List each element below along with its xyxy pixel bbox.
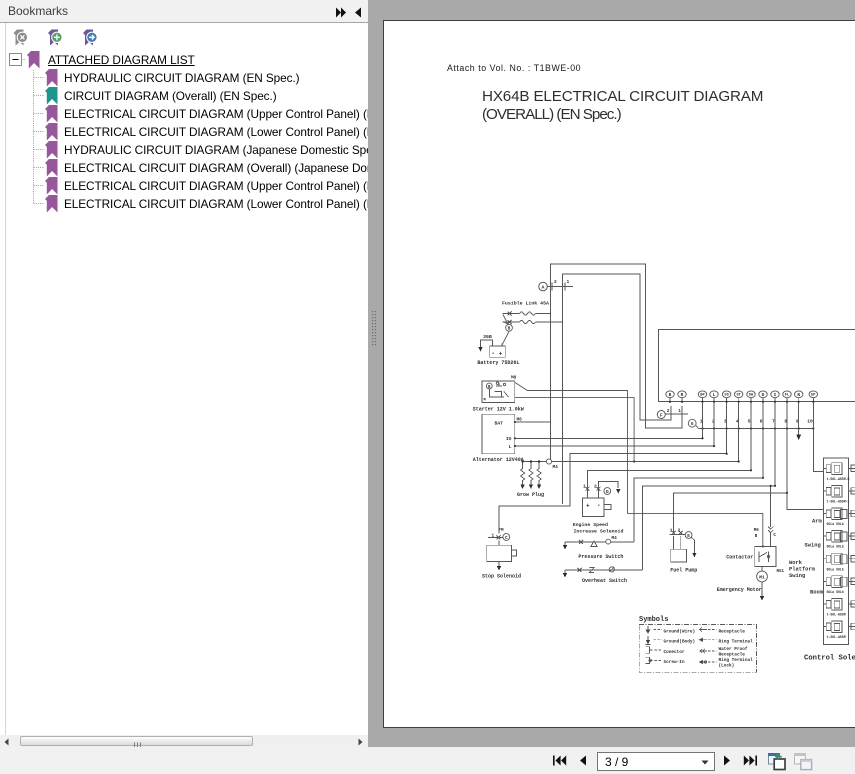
- svg-text:B: B: [669, 393, 672, 398]
- svg-text:1: 1: [567, 279, 570, 285]
- svg-text:Ground(Body): Ground(Body): [664, 640, 696, 645]
- svg-text:F: F: [660, 412, 663, 418]
- svg-text:10: 10: [807, 419, 813, 425]
- svg-text:6: 6: [760, 419, 763, 425]
- svg-text:M: M: [484, 399, 487, 403]
- svg-text:Conector: Conector: [664, 650, 685, 655]
- svg-text:(Lock): (Lock): [719, 664, 735, 669]
- svg-text:2: 2: [554, 279, 557, 285]
- svg-text:SW: SW: [749, 394, 754, 398]
- svg-text:Fuel Pump: Fuel Pump: [670, 567, 697, 573]
- svg-text:C: C: [773, 534, 776, 538]
- svg-text:Swing: Swing: [805, 542, 821, 548]
- svg-text:Engine Speed: Engine Speed: [573, 522, 608, 528]
- svg-text:Starter 12V 1.0kW: Starter 12V 1.0kW: [473, 406, 524, 412]
- svg-text:1: 1: [670, 528, 673, 533]
- svg-text:B: B: [488, 386, 491, 390]
- svg-text:BAT: BAT: [495, 420, 504, 426]
- svg-text:B: B: [508, 327, 511, 332]
- svg-text:N: N: [797, 393, 800, 398]
- svg-text:t-SOL-ASSM-L: t-SOL-ASSM-L: [827, 500, 850, 504]
- svg-text:Increase Solenoid: Increase Solenoid: [574, 529, 624, 535]
- svg-text:Ground(Wire): Ground(Wire): [664, 629, 696, 634]
- svg-text:Receptacle: Receptacle: [719, 629, 746, 634]
- svg-text:D: D: [606, 490, 609, 495]
- svg-text:Battery 75D26L: Battery 75D26L: [477, 360, 519, 366]
- svg-text:Fusible Link 45A: Fusible Link 45A: [502, 301, 549, 307]
- svg-text:M4: M4: [612, 536, 618, 541]
- svg-text:M6: M6: [754, 529, 760, 533]
- svg-text:Receptacle: Receptacle: [719, 652, 746, 657]
- svg-text:BP: BP: [700, 394, 705, 398]
- svg-text:Contactor: Contactor: [726, 554, 753, 560]
- svg-text:M1: M1: [759, 574, 765, 580]
- svg-text:A: A: [542, 284, 545, 290]
- svg-text:Symbols: Symbols: [639, 616, 668, 624]
- svg-text:FM: FM: [499, 529, 505, 533]
- svg-text:R: R: [681, 393, 684, 398]
- svg-text:M8: M8: [511, 376, 517, 381]
- svg-text:L: L: [713, 393, 716, 398]
- svg-text:Attach to Vol. No. : T1BWE-00: Attach to Vol. No. : T1BWE-00: [447, 63, 581, 73]
- svg-text:Grow Plug: Grow Plug: [517, 492, 544, 498]
- svg-text:M4: M4: [553, 465, 559, 470]
- svg-text:Ring Terminal: Ring Terminal: [719, 640, 754, 645]
- svg-text:1: 1: [678, 408, 681, 414]
- svg-text:t-SOL-ASSM: t-SOL-ASSM: [827, 635, 846, 639]
- svg-text:ST: ST: [736, 394, 741, 398]
- svg-text:1: 1: [583, 485, 586, 490]
- svg-text:B: B: [755, 535, 758, 539]
- svg-text:Pressure Switch: Pressure Switch: [578, 554, 623, 560]
- svg-text:(OVERALL) (EN Spec.): (OVERALL) (EN Spec.): [482, 106, 622, 123]
- svg-text:SOLa SOLb: SOLa SOLb: [827, 567, 844, 571]
- svg-text:-: -: [597, 502, 601, 509]
- svg-text:Work: Work: [789, 560, 803, 566]
- svg-text:t-SOL-ASSM: t-SOL-ASSM: [827, 613, 846, 617]
- svg-text:HX64B ELECTRICAL CIRCUIT DIAGR: HX64B ELECTRICAL CIRCUIT DIAGRAM: [482, 88, 763, 105]
- svg-text:35B: 35B: [483, 334, 492, 340]
- svg-text:Overheat Switch: Overheat Switch: [582, 578, 627, 584]
- svg-text:Platform: Platform: [789, 567, 816, 573]
- svg-text:L: L: [509, 444, 512, 450]
- svg-text:Control Solenoid: Control Solenoid: [804, 655, 855, 663]
- svg-text:Alternator 12V40A: Alternator 12V40A: [473, 457, 524, 463]
- svg-text:G: G: [691, 421, 694, 427]
- svg-text:2: 2: [667, 408, 670, 414]
- svg-text:Boom: Boom: [810, 590, 824, 596]
- svg-text:Stop Solenoid: Stop Solenoid: [482, 574, 521, 580]
- svg-text:Arm: Arm: [812, 519, 822, 525]
- svg-text:E: E: [687, 534, 690, 539]
- svg-text:5: 5: [748, 419, 751, 425]
- svg-text:+: +: [586, 503, 590, 510]
- svg-text:+: +: [499, 350, 503, 357]
- svg-text:FL: FL: [785, 394, 790, 398]
- svg-text:SOLa SOLb: SOLa SOLb: [827, 522, 844, 526]
- svg-text:Screw-In: Screw-In: [664, 660, 685, 665]
- svg-text:EP: EP: [811, 394, 816, 398]
- svg-text:2: 2: [594, 485, 597, 490]
- svg-text:C: C: [505, 536, 508, 541]
- svg-text:SOLa SOLb: SOLa SOLb: [827, 545, 844, 549]
- svg-text:SS: SS: [724, 394, 729, 398]
- svg-text:IG: IG: [506, 436, 512, 442]
- svg-text:RS1: RS1: [777, 570, 785, 574]
- svg-text:D: D: [762, 393, 765, 398]
- svg-text:2: 2: [678, 528, 681, 533]
- svg-text:Emergency Motor: Emergency Motor: [717, 587, 762, 593]
- svg-text:t-SOL-ASSM-R: t-SOL-ASSM-R: [827, 477, 850, 481]
- svg-text:-: -: [491, 350, 495, 357]
- svg-text:Swing: Swing: [789, 573, 805, 579]
- svg-text:I: I: [774, 393, 777, 398]
- svg-text:SOLa SOLb: SOLa SOLb: [827, 590, 844, 594]
- svg-text:Ring Terminal: Ring Terminal: [719, 658, 754, 663]
